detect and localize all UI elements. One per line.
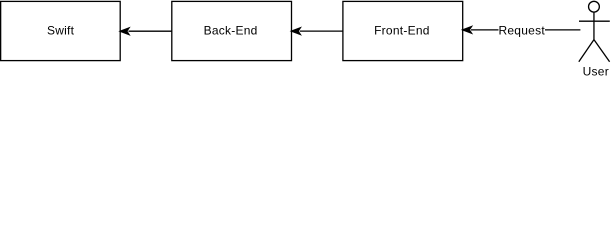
actor User arms bbox=[579, 20, 610, 22]
arrow User to Front-End (Request) bbox=[463, 27, 581, 34]
svg-text:Back-End: Back-End bbox=[204, 23, 258, 37]
svg-text:Request: Request bbox=[498, 23, 545, 37]
actor User right leg bbox=[594, 40, 610, 62]
box Back-End bbox=[172, 1, 292, 60]
actor User head bbox=[589, 1, 600, 12]
svg-text:Front-End: Front-End bbox=[374, 23, 430, 37]
svg-text:User: User bbox=[583, 64, 609, 78]
svg-text:Swift: Swift bbox=[47, 23, 75, 37]
box Front-End bbox=[343, 1, 463, 60]
arrow Back-End to Swift bbox=[120, 28, 172, 35]
arrow Front-End to Back-End bbox=[292, 28, 343, 35]
actor User left leg bbox=[579, 40, 594, 62]
box Swift bbox=[1, 1, 121, 60]
actor User body bbox=[593, 12, 595, 39]
label Request bbox=[498, 23, 545, 37]
